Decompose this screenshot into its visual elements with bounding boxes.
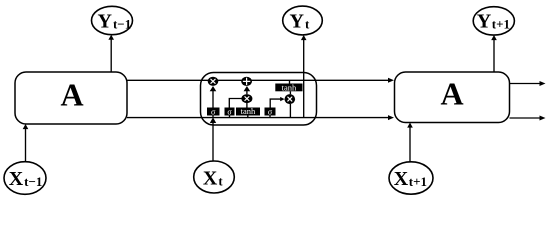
gate sigma 3 stub to hidden line (269, 116, 271, 118)
svg-text:tanh: tanh (282, 82, 297, 92)
wire Y_t-1 stem (108, 35, 114, 72)
wire Y_t stem (301, 35, 307, 118)
wire cell-state line through cell (201, 79, 317, 81)
svg-text:σ: σ (268, 107, 273, 116)
wire Y_t+1 stem (491, 35, 497, 72)
node X_t+1 (389, 162, 433, 194)
gate sigma 2 (225, 107, 235, 116)
svg-text:tanh: tanh (241, 106, 256, 116)
wire hidden-state line through cell (201, 117, 317, 119)
multiply node mid (241, 94, 252, 103)
wire cell-state arrow into right A (317, 78, 395, 83)
node Y_t-1 (92, 6, 133, 34)
gate tanh stub to hidden line (247, 116, 249, 118)
node Y_t+1 (473, 7, 514, 35)
plus node (241, 77, 252, 86)
wire sigma3 to multiply right (270, 97, 284, 108)
wire cell-state to tanh top box (289, 80, 291, 83)
wire sigma1 to multiply left (210, 86, 217, 108)
wire hidden-state line left A to cell (127, 117, 201, 119)
gate sigma 1 (207, 107, 220, 116)
gate sigma 2 stub to hidden line (229, 116, 231, 118)
gate tanh bottom (236, 106, 260, 116)
multiply node right (285, 94, 296, 104)
gate sigma 1 stub to hidden line (212, 116, 214, 118)
node Y_t (283, 6, 323, 35)
wire multiply right to hidden line (289, 104, 291, 118)
wire tanh top box to multiply right (289, 91, 291, 94)
multiply node left (208, 77, 219, 86)
wire hidden-state arrow into right A (317, 115, 395, 120)
node X_t-1 (4, 162, 46, 195)
wire X_t arrow into cell (210, 117, 216, 161)
wire X_t-1 arrow into left A (23, 124, 29, 162)
gate tanh top (275, 82, 302, 92)
svg-text:σ: σ (227, 107, 232, 116)
wire cell-state line left A to cell (127, 79, 201, 81)
wire X_t+1 arrow into right A (407, 123, 413, 163)
wire multiply mid to plus (244, 86, 251, 94)
svg-text:A: A (440, 76, 463, 112)
LSTM cell box (201, 73, 317, 126)
block A right (395, 72, 510, 123)
wire right A top output arrow (510, 81, 546, 86)
wire right A bottom output arrow (510, 116, 546, 121)
svg-text:σ: σ (211, 107, 216, 116)
svg-text:A: A (60, 77, 83, 113)
node X_t (194, 161, 235, 193)
gate sigma 3 (265, 107, 276, 116)
wire sigma2 to multiply mid (229, 99, 242, 108)
block A left (15, 72, 127, 124)
wire tanh gate to multiply mid (246, 103, 248, 108)
